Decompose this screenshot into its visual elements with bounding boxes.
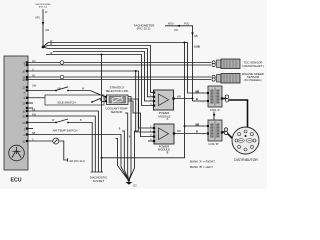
svg-text:UFS: UFS xyxy=(35,17,40,20)
svg-text:AIR TEMP SWITCH: AIR TEMP SWITCH xyxy=(53,129,78,133)
svg-text:NY: NY xyxy=(32,74,36,77)
svg-text:BANK 'A' = RIGHT: BANK 'A' = RIGHT xyxy=(190,159,215,163)
svg-text:NB: NB xyxy=(196,89,200,93)
svg-text:DISTRIBUTOR: DISTRIBUTOR xyxy=(234,158,258,162)
svg-text:WSU: WSU xyxy=(168,22,174,25)
svg-text:ECU: ECU xyxy=(11,178,22,184)
svg-text:COIL 'B': COIL 'B' xyxy=(208,142,219,146)
svg-text:(FIG 10.1): (FIG 10.1) xyxy=(137,27,151,31)
svg-text:0.5B: 0.5B xyxy=(194,45,200,49)
svg-text:(FLYWHEEL): (FLYWHEEL) xyxy=(244,78,261,82)
svg-text:(CRANKSHAFT): (CRANKSHAFT) xyxy=(242,64,264,68)
svg-text:IDLE SWITCH: IDLE SWITCH xyxy=(57,101,75,105)
svg-text:SB: SB xyxy=(32,132,36,135)
svg-text:KB: KB xyxy=(32,108,36,111)
svg-text:COIL 'A': COIL 'A' xyxy=(210,108,221,112)
svg-text:B: B xyxy=(196,97,198,101)
svg-text:NB: NB xyxy=(196,122,200,126)
svg-text:NB: NB xyxy=(194,35,198,38)
svg-text:U: U xyxy=(32,68,34,71)
svg-text:SOCKET: SOCKET xyxy=(93,179,105,183)
svg-text:WO: WO xyxy=(177,130,181,133)
svg-text:SENSOR: SENSOR xyxy=(111,110,123,114)
svg-text:WB: WB xyxy=(177,96,181,99)
svg-text:PGU: PGU xyxy=(184,22,189,25)
svg-text:EFI (FIG 10.2): EFI (FIG 10.2) xyxy=(70,160,85,163)
svg-text:(FIG 4.2): (FIG 4.2) xyxy=(39,6,48,8)
svg-text:SELECTION LINK: SELECTION LINK xyxy=(106,89,129,93)
svg-text:NU: NU xyxy=(32,60,36,63)
svg-text:BANK 'B' = LEFT: BANK 'B' = LEFT xyxy=(190,165,213,169)
svg-text:ON: ON xyxy=(174,29,178,32)
svg-text:B: B xyxy=(196,130,198,134)
